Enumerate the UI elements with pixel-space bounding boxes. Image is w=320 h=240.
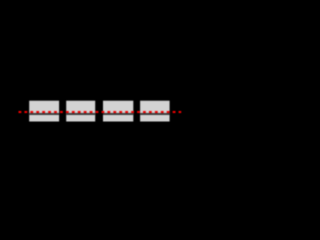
red dashed line bbox=[19, 111, 182, 113]
frame thumbnail 4 bbox=[140, 101, 170, 122]
frame thumbnail 2 bbox=[66, 101, 95, 122]
frame thumbnail 1 bbox=[29, 101, 59, 122]
dark scan band 1 bbox=[29, 113, 59, 115]
dark scan band 2 bbox=[66, 113, 95, 115]
dark scan band 3 bbox=[103, 113, 133, 115]
frame thumbnail 3 bbox=[103, 101, 133, 122]
dark scan band 4 bbox=[140, 113, 170, 115]
